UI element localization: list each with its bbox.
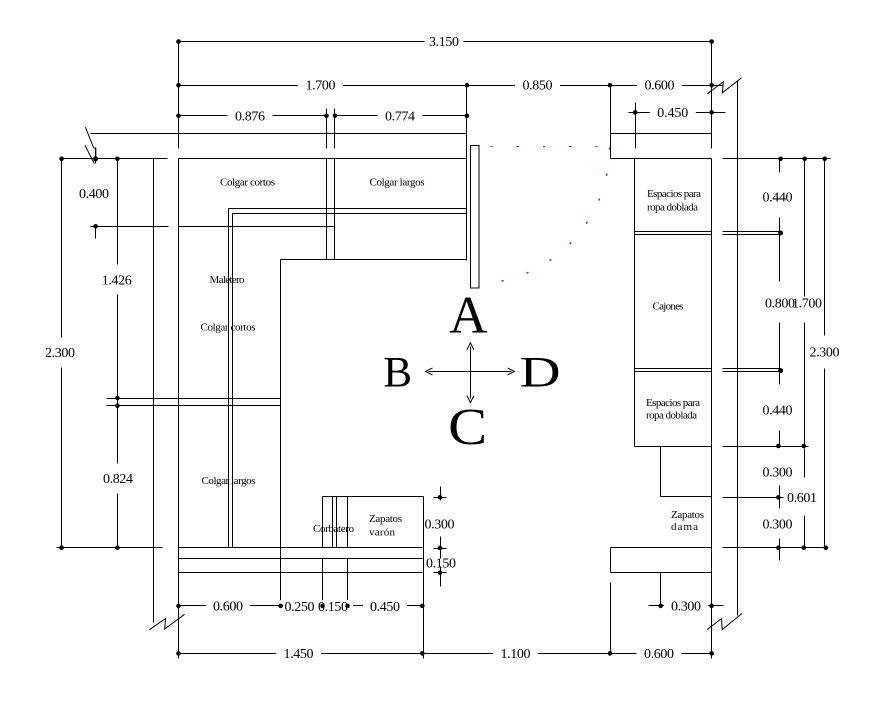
- svg-text:0.774: 0.774: [385, 109, 415, 124]
- svg-text:3.150: 3.150: [429, 35, 459, 50]
- svg-text:varón: varón: [369, 526, 396, 538]
- right cabinet right edge with extensions: [711, 42, 713, 659]
- svg-text:C: C: [448, 399, 487, 456]
- svg-text:Colgar cortos: Colgar cortos: [220, 176, 275, 188]
- svg-text:1.426: 1.426: [102, 274, 132, 289]
- svg-text:0.601: 0.601: [787, 491, 817, 506]
- svg-text:0.250: 0.250: [285, 600, 315, 615]
- closet left edge with dim extensions: [178, 42, 180, 659]
- svg-text:Colgar cortos: Colgar cortos: [201, 321, 256, 333]
- dim vertical 1.426 0.824: [117, 159, 119, 548]
- svg-text:0.400: 0.400: [79, 187, 109, 202]
- divider double line: [327, 109, 335, 260]
- svg-text:0.600: 0.600: [644, 647, 674, 662]
- svg-text:0.300: 0.300: [671, 600, 701, 615]
- door swing dashed line: [491, 146, 613, 148]
- right cabinet bottom line: [611, 547, 828, 549]
- svg-text:Colgar largos: Colgar largos: [370, 176, 425, 188]
- closet right edge top section: [466, 86, 468, 261]
- dim line 1.700 0.850 0.600: [179, 85, 723, 87]
- lower extension lines: [281, 548, 424, 659]
- dim vertical 0.440 0.800 0.440 0.300 0.300: [779, 159, 781, 561]
- svg-text:dama: dama: [671, 521, 698, 533]
- svg-text:0.876: 0.876: [235, 109, 265, 124]
- corbatero double divider: [333, 497, 348, 548]
- lower right extensions: [611, 573, 661, 654]
- right cabinet espacios bottom: [635, 446, 809, 448]
- svg-text:1.450: 1.450: [284, 647, 314, 662]
- top left dim baseline: [61, 158, 168, 160]
- svg-text:1.700: 1.700: [792, 297, 822, 312]
- svg-text:Zapatos: Zapatos: [369, 513, 402, 525]
- svg-text:0.600: 0.600: [213, 600, 243, 615]
- compass cross arrows: [426, 343, 515, 403]
- break symbol top right: [707, 78, 741, 94]
- break symbol top left: [85, 127, 96, 163]
- dim col 0.300 0.150 corbatero: [440, 487, 442, 587]
- svg-text:0.440: 0.440: [763, 191, 793, 206]
- svg-text:ropa doblada: ropa doblada: [646, 409, 697, 421]
- wall right edge: [737, 82, 739, 616]
- svg-text:2.300: 2.300: [45, 346, 75, 361]
- svg-text:0.850: 0.850: [523, 79, 553, 94]
- closet base line 2: [179, 558, 423, 560]
- right foot box: [611, 548, 712, 573]
- svg-text:0.824: 0.824: [103, 472, 133, 487]
- right dim baseline: [723, 158, 831, 160]
- closet top edge: [179, 158, 467, 160]
- right cabinet left edge: [634, 159, 636, 447]
- svg-text:Corbatero: Corbatero: [313, 523, 355, 535]
- svg-text:0.300: 0.300: [425, 518, 455, 533]
- svg-text:0.450: 0.450: [657, 106, 688, 121]
- wall left edge: [153, 159, 155, 623]
- closet bottom line: [57, 547, 423, 549]
- right cabinet shelf 1 double line: [635, 232, 781, 235]
- dim vertical 2.300 left: [61, 159, 63, 548]
- dim tick 0.400 bottom: [91, 226, 169, 228]
- right cabinet header block: [611, 86, 712, 159]
- dim vertical 2.300 right: [824, 159, 826, 548]
- wall top edge: [91, 133, 467, 135]
- closet rod vertical double line: [229, 209, 233, 548]
- bottom dim row 1: [179, 605, 724, 607]
- svg-text:Espacios para: Espacios para: [646, 397, 700, 409]
- svg-text:0.440: 0.440: [763, 404, 793, 419]
- break symbol bottom left: [149, 614, 184, 630]
- svg-text:0.300: 0.300: [763, 518, 793, 533]
- door swing dashed arc: [485, 148, 610, 284]
- svg-text:Maletero: Maletero: [210, 274, 246, 286]
- svg-text:Zapatos: Zapatos: [671, 509, 704, 521]
- left shelf double line: [107, 399, 281, 406]
- svg-text:0.150: 0.150: [426, 556, 456, 571]
- svg-text:1.100: 1.100: [501, 647, 531, 662]
- svg-text:D: D: [520, 350, 561, 397]
- closet base line 3: [179, 572, 423, 574]
- svg-text:0.800: 0.800: [765, 297, 795, 312]
- svg-text:1.700: 1.700: [306, 79, 336, 94]
- break symbol bottom right: [707, 614, 742, 630]
- svg-text:B: B: [383, 349, 412, 396]
- svg-text:0.300: 0.300: [763, 466, 793, 481]
- svg-text:0.450: 0.450: [370, 600, 400, 615]
- dim line 0.876 0.774: [179, 115, 467, 117]
- inner left edge: [280, 260, 282, 548]
- svg-text:Cajones: Cajones: [653, 300, 684, 312]
- svg-text:ropa doblada: ropa doblada: [647, 201, 698, 213]
- top right section bottom edge: [281, 259, 467, 261]
- dim line 0.450: [629, 103, 726, 149]
- svg-text:Colgar largos: Colgar largos: [202, 475, 256, 487]
- right cabinet shelf 2 double line: [635, 369, 781, 372]
- svg-text:0.600: 0.600: [645, 79, 675, 94]
- bottom dim row 2: [179, 653, 712, 655]
- dim vertical 1.700 0.601: [804, 159, 806, 548]
- dim line 3.150: [179, 41, 712, 43]
- svg-text:Espacios para: Espacios para: [647, 188, 701, 200]
- door leaf: [471, 146, 480, 289]
- zapatos dama connector: [661, 447, 784, 498]
- svg-text:2.300: 2.300: [810, 346, 840, 361]
- tick dots: [59, 39, 828, 656]
- dim vertical 0.400 stub: [95, 149, 97, 239]
- colgar cortos bottom shelf line: [179, 226, 335, 228]
- closet rod horizontal double line: [229, 209, 467, 214]
- corbatero zapatos box: [323, 497, 424, 573]
- svg-text:A: A: [449, 287, 487, 345]
